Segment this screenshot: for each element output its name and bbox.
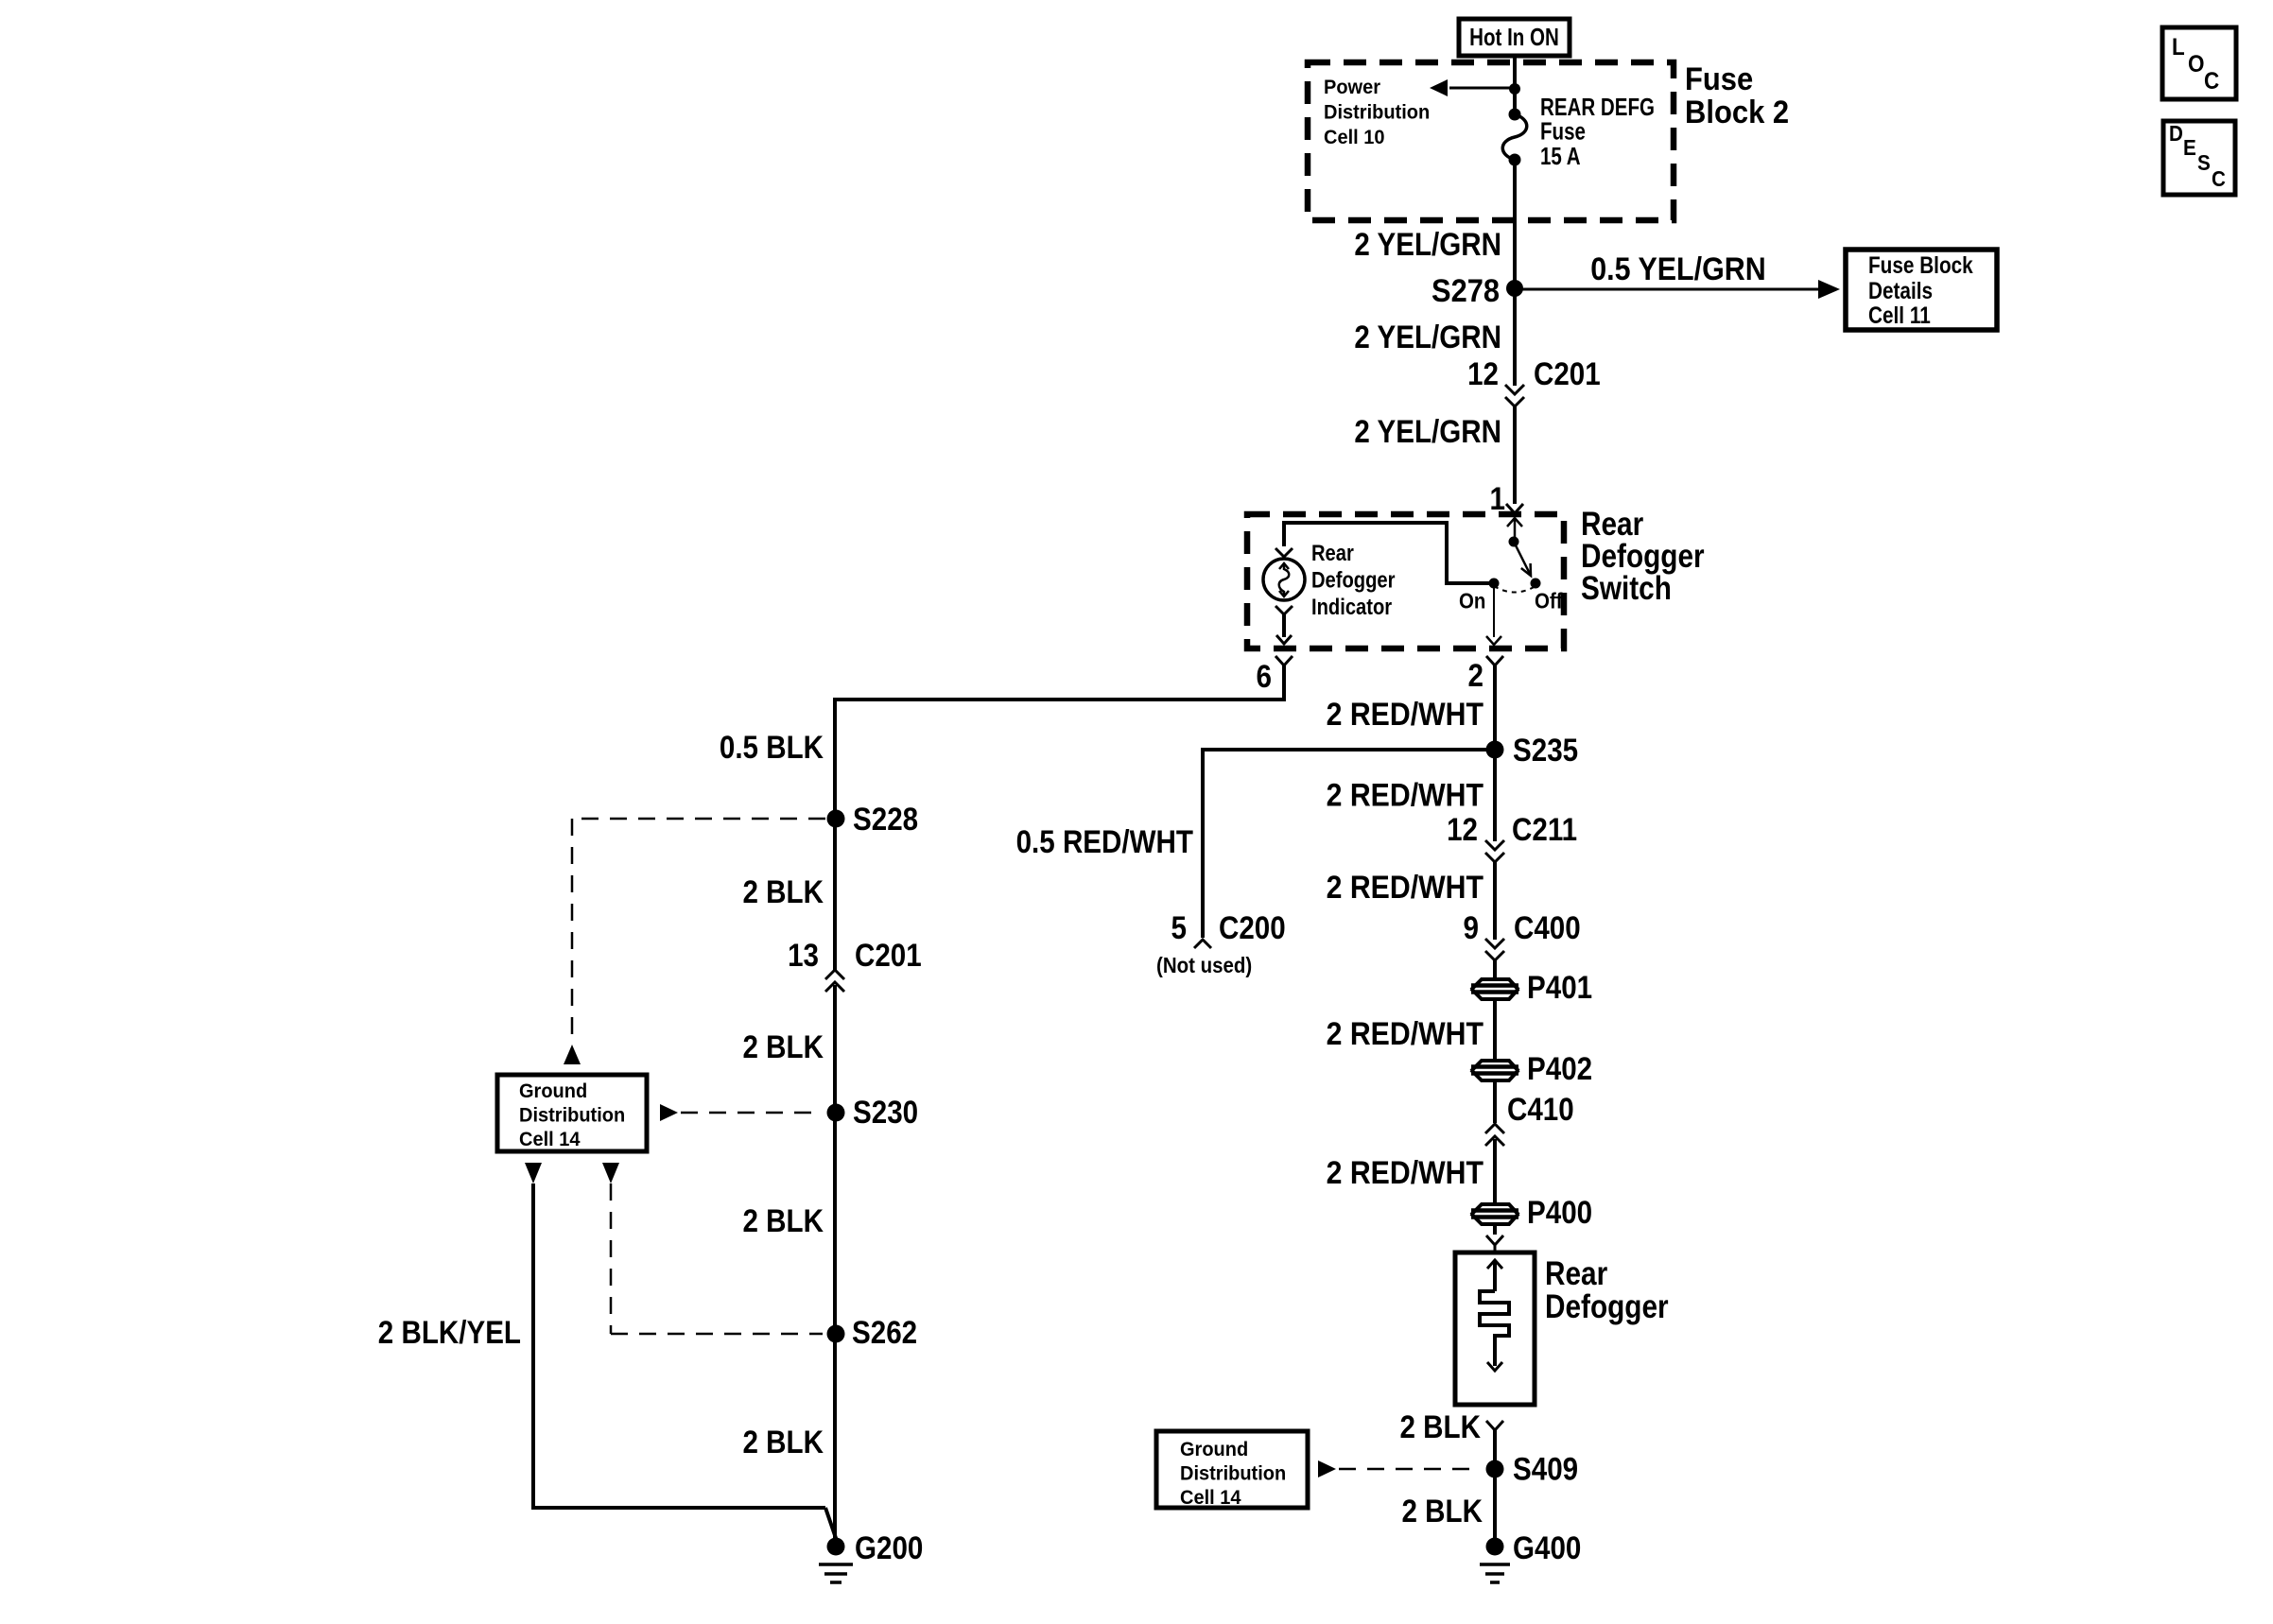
reference box Fuse Block Details Cell 11	[1846, 250, 1997, 330]
svg-text:0.5 BLK: 0.5 BLK	[720, 730, 824, 766]
svg-text:Cell 14: Cell 14	[519, 1128, 581, 1150]
dashed reference: box to S230	[660, 1104, 821, 1121]
grommet P400	[1471, 1195, 1592, 1231]
svg-text:C200: C200	[1219, 910, 1286, 946]
wire: pin 2 down to S235	[1493, 665, 1497, 750]
svg-text:C211: C211	[1512, 812, 1577, 848]
svg-text:0.5 YEL/GRN: 0.5 YEL/GRN	[1590, 251, 1766, 287]
node: junction to power distribution arrow	[1509, 83, 1520, 95]
wire: Hot In ON down into fuse block	[1513, 56, 1517, 90]
wire: C201 to switch pin 1	[1513, 406, 1517, 504]
wire: C400 to P401	[1493, 959, 1497, 978]
wire: indicator branch from On contact	[1284, 521, 1494, 585]
svg-text:Distribution: Distribution	[1324, 101, 1430, 124]
svg-text:12: 12	[1467, 356, 1499, 392]
wire: P402 to C410	[1493, 1081, 1497, 1123]
node S409	[1486, 1452, 1579, 1488]
svg-text:Block 2: Block 2	[1685, 95, 1789, 130]
svg-text:Rear: Rear	[1545, 1255, 1608, 1292]
switch fixed contact (arrow up from pivot)	[1507, 518, 1522, 542]
node S278	[1431, 273, 1523, 309]
svg-text:S278: S278	[1431, 273, 1500, 309]
svg-text:Switch: Switch	[1581, 570, 1672, 607]
wire: fuse to S278	[1513, 160, 1517, 288]
svg-text:2 RED/WHT: 2 RED/WHT	[1327, 697, 1484, 733]
svg-text:O: O	[2188, 51, 2205, 78]
connector into rear defogger	[1486, 1235, 1503, 1254]
svg-text:2 YEL/GRN: 2 YEL/GRN	[1354, 227, 1501, 263]
wire: C201 to S230	[833, 985, 837, 1113]
label Fuse Block 2	[1685, 61, 1789, 130]
wire: C410 to P400	[1493, 1139, 1497, 1202]
svg-text:2 BLK: 2 BLK	[743, 1203, 824, 1239]
svg-text:S235: S235	[1513, 733, 1578, 769]
page corner symbol DESC	[2163, 121, 2235, 195]
svg-text:Cell 10: Cell 10	[1324, 126, 1385, 148]
wire: S235 down to C211	[1493, 750, 1497, 841]
ground G200	[819, 1530, 923, 1582]
svg-text:9: 9	[1464, 910, 1480, 946]
svg-text:12: 12	[1447, 812, 1478, 848]
svg-text:Distribution: Distribution	[1180, 1462, 1286, 1485]
svg-text:C400: C400	[1514, 910, 1581, 946]
svg-text:0.5 RED/WHT: 0.5 RED/WHT	[1016, 824, 1194, 860]
label Power Distribution Cell 10	[1324, 76, 1430, 148]
svg-text:2 BLK: 2 BLK	[1400, 1409, 1482, 1445]
wire: indicator to pin 6 (chevron, shaft, arrow)	[1275, 606, 1293, 644]
dashed travel arc On-Off	[1494, 586, 1536, 593]
pin 1 of rear defogger switch	[1490, 481, 1524, 517]
svg-text:Fuse Block: Fuse Block	[1868, 252, 1973, 279]
node S230	[827, 1095, 919, 1131]
wire: S262 to G200	[833, 1334, 837, 1546]
wire: C211 to C400	[1493, 861, 1497, 940]
wire: S278 down to connector C201	[1513, 288, 1517, 386]
dashed reference: box down to S262	[611, 1183, 823, 1334]
node S228	[827, 802, 919, 838]
svg-text:C: C	[2212, 166, 2226, 191]
svg-text:Rear: Rear	[1311, 541, 1354, 566]
svg-text:(Not used): (Not used)	[1156, 953, 1252, 977]
grommet P401	[1471, 970, 1592, 1006]
svg-text:Power: Power	[1324, 76, 1381, 98]
svg-text:2 YEL/GRN: 2 YEL/GRN	[1354, 320, 1501, 355]
svg-text:2 BLK: 2 BLK	[743, 1425, 824, 1460]
switch pivot	[1509, 537, 1519, 547]
svg-text:S: S	[2197, 150, 2211, 175]
wire: pin 6 down and across to left trunk	[833, 665, 1286, 701]
wire: P401 to P402	[1493, 1000, 1497, 1059]
rear defogger grid box	[1455, 1253, 1535, 1405]
rear defogger switch dashed box	[1247, 514, 1564, 648]
svg-text:S262: S262	[852, 1315, 917, 1351]
svg-text:2: 2	[1468, 658, 1484, 694]
reference arrow down-right from box (to S262)	[602, 1163, 619, 1183]
svg-text:P401: P401	[1527, 970, 1592, 1006]
svg-text:L: L	[2172, 34, 2185, 60]
svg-text:Defogger: Defogger	[1311, 568, 1396, 594]
wire: S278 arrow to Fuse Block Details	[1515, 280, 1840, 299]
dashed reference: S228 to ground distribution (left)	[564, 819, 825, 1064]
reference box Ground Distribution Cell 14 (right)	[1156, 1431, 1308, 1509]
dashed reference: box to S409	[1318, 1460, 1481, 1477]
node S262	[827, 1315, 918, 1351]
svg-text:G400: G400	[1513, 1530, 1581, 1566]
label REAR DEFG Fuse 15 A	[1540, 93, 1655, 170]
svg-text:G200: G200	[855, 1530, 923, 1566]
svg-text:2 RED/WHT: 2 RED/WHT	[1327, 870, 1484, 906]
contact On	[1489, 579, 1500, 589]
node S235	[1486, 733, 1579, 769]
svg-text:S230: S230	[853, 1095, 918, 1131]
svg-text:Ground: Ground	[1180, 1438, 1248, 1460]
svg-text:D: D	[2169, 121, 2183, 146]
svg-text:2 RED/WHT: 2 RED/WHT	[1327, 1155, 1484, 1191]
contact Off	[1531, 579, 1541, 589]
svg-text:2 RED/WHT: 2 RED/WHT	[1327, 1016, 1484, 1052]
connector C211 pin 12 (pointing down)	[1447, 812, 1577, 862]
svg-text:Indicator: Indicator	[1311, 595, 1392, 620]
fuse block 2 dashed box	[1308, 62, 1674, 220]
wire 2 BLK/YEL: down, across, to G200	[531, 1183, 837, 1541]
rear defogger grid element	[1480, 1260, 1509, 1371]
svg-text:Hot In ON: Hot In ON	[1469, 23, 1559, 51]
reference box Ground Distribution Cell 14 (left)	[497, 1075, 647, 1151]
svg-text:5: 5	[1171, 910, 1188, 946]
connector C200 pin 5 (not used)	[1156, 910, 1286, 977]
connector C201 pin 12 (in-line, pointing down)	[1467, 356, 1601, 406]
svg-text:S228: S228	[853, 802, 918, 838]
svg-text:Defogger: Defogger	[1545, 1288, 1669, 1325]
wire: S230 to S262	[833, 1113, 837, 1334]
wire: S235 branch left to C200	[1201, 748, 1495, 938]
connector C410 (pointing up)	[1485, 1092, 1574, 1146]
power source box "Hot In ON"	[1459, 19, 1570, 56]
wire: On contact down to pin 2 (thin with arrow)	[1486, 583, 1501, 645]
svg-text:Distribution: Distribution	[519, 1104, 625, 1127]
svg-text:2 BLK: 2 BLK	[1402, 1494, 1484, 1529]
svg-text:C201: C201	[1534, 356, 1601, 392]
wire: P400 to rear defogger	[1493, 1225, 1497, 1235]
svg-text:S409: S409	[1513, 1452, 1578, 1488]
svg-text:E: E	[2183, 135, 2196, 160]
wire: rear defogger to S409	[1493, 1430, 1497, 1469]
svg-text:C410: C410	[1507, 1092, 1574, 1128]
pin 2 of rear defogger switch	[1468, 656, 1504, 694]
svg-text:P402: P402	[1527, 1051, 1592, 1087]
wire: left trunk down from pin6 wire	[833, 698, 837, 970]
svg-text:Cell 11: Cell 11	[1868, 302, 1931, 329]
label Rear Defogger Switch	[1581, 506, 1705, 607]
svg-text:P400: P400	[1527, 1195, 1592, 1231]
connector C400 pin 9 (pointing down)	[1464, 910, 1581, 960]
reference arrow down-left from box (to G200 wire)	[525, 1163, 542, 1183]
connector C201 pin 13 (pointing up)	[788, 938, 922, 992]
svg-text:On: On	[1459, 589, 1485, 613]
svg-text:Off: Off	[1535, 589, 1563, 613]
label Rear Defogger Indicator	[1311, 541, 1396, 620]
ground G400	[1480, 1530, 1581, 1582]
rear defogger indicator lamp	[1263, 548, 1305, 600]
connector out of rear defogger	[1486, 1421, 1503, 1430]
svg-text:C201: C201	[855, 938, 922, 974]
svg-text:15 A: 15 A	[1540, 142, 1581, 170]
switch blade toward Off	[1514, 542, 1531, 576]
svg-text:2 RED/WHT: 2 RED/WHT	[1327, 778, 1484, 814]
svg-text:Fuse: Fuse	[1540, 117, 1586, 146]
svg-text:6: 6	[1257, 659, 1273, 695]
label Rear Defogger	[1545, 1255, 1669, 1325]
svg-text:C: C	[2204, 68, 2219, 95]
pin 6 of rear defogger switch	[1257, 656, 1293, 695]
svg-text:Fuse: Fuse	[1685, 61, 1753, 97]
svg-text:2 BLK: 2 BLK	[743, 1029, 824, 1065]
grommet P402	[1471, 1051, 1592, 1087]
svg-text:2 BLK: 2 BLK	[743, 874, 824, 910]
wire: S409 to G400	[1493, 1469, 1497, 1546]
svg-text:2 YEL/GRN: 2 YEL/GRN	[1354, 414, 1501, 450]
wire: arrow to Power Distribution Cell 10	[1430, 79, 1515, 96]
svg-text:13: 13	[788, 938, 819, 974]
page corner symbol LOC	[2162, 27, 2236, 99]
svg-text:Cell 14: Cell 14	[1180, 1486, 1241, 1509]
fuse REAR DEFG 15 A	[1502, 109, 1527, 166]
wire: junction to fuse top	[1513, 89, 1517, 114]
svg-text:2 BLK/YEL: 2 BLK/YEL	[378, 1315, 521, 1351]
svg-text:Details: Details	[1868, 278, 1933, 304]
svg-text:Ground: Ground	[519, 1080, 587, 1102]
